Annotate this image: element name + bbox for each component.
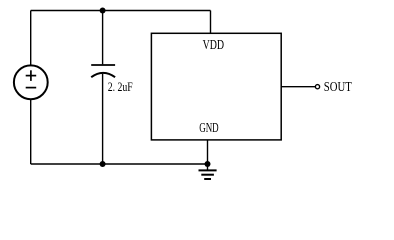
svg-text:SOUT: SOUT <box>324 80 352 95</box>
svg-text:VDD: VDD <box>203 38 225 53</box>
svg-text:GND: GND <box>199 121 219 136</box>
svg-text:2. 2uF: 2. 2uF <box>108 79 133 94</box>
